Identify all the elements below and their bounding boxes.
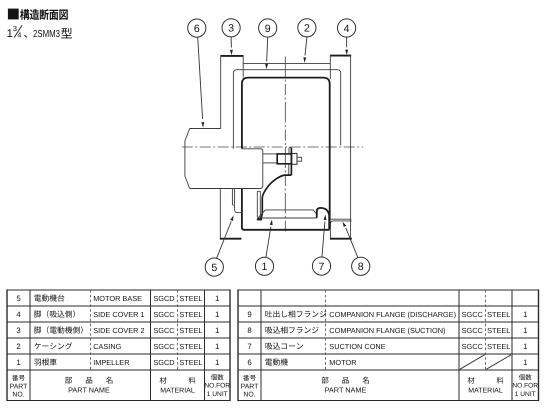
- svg-text:PART NAME: PART NAME: [68, 386, 110, 395]
- callout 3 leg: [222, 19, 240, 37]
- shaft: [263, 153, 277, 155]
- svg-text:4: 4: [344, 23, 350, 35]
- svg-text:2SMM3: 2SMM3: [33, 29, 60, 40]
- svg-text:STEEL: STEEL: [487, 310, 510, 319]
- svg-text:SIDE COVER 1: SIDE COVER 1: [93, 310, 144, 319]
- svg-text:COMPANION FLANGE (SUCTION): COMPANION FLANGE (SUCTION): [329, 326, 445, 335]
- svg-text:1 UNIT: 1 UNIT: [515, 391, 536, 398]
- svg-text:PART NAME: PART NAME: [325, 386, 367, 395]
- material n/a diagonals: [460, 355, 485, 369]
- svg-text:NO.FOR: NO.FOR: [512, 383, 538, 390]
- svg-text:IMPELLER: IMPELLER: [93, 358, 129, 367]
- svg-text:1: 1: [215, 310, 219, 319]
- svg-text:STEEL: STEEL: [179, 326, 202, 335]
- casing (2): [243, 62, 330, 64]
- left table header: [12, 375, 18, 381]
- svg-text:3: 3: [228, 23, 234, 35]
- svg-text:2: 2: [304, 23, 310, 35]
- svg-text:1: 1: [523, 342, 527, 351]
- svg-text:STEEL: STEEL: [179, 310, 202, 319]
- svg-text:STEEL: STEEL: [487, 326, 510, 335]
- callout 7 cone: [312, 257, 330, 275]
- horizontal centerline: [182, 146, 364, 148]
- svg-text:7: 7: [319, 261, 325, 273]
- leg left / side cover 2 (3): [221, 55, 244, 57]
- leg right / side cover 1 (4): [330, 55, 351, 57]
- svg-text:7: 7: [247, 342, 251, 351]
- suction cone (7): [317, 208, 329, 229]
- svg-text:SGCC: SGCC: [153, 310, 175, 319]
- svg-text:MATERIAL: MATERIAL: [160, 388, 195, 395]
- svg-text:PART: PART: [10, 384, 29, 391]
- svg-text:3: 3: [16, 326, 20, 335]
- svg-text:MATERIAL: MATERIAL: [468, 388, 503, 395]
- right table header: [243, 375, 249, 381]
- svg-text:8: 8: [358, 261, 364, 273]
- svg-text:NO.: NO.: [243, 392, 255, 399]
- svg-text:1: 1: [523, 326, 527, 335]
- svg-text:2: 2: [16, 342, 20, 351]
- svg-text:SGCC: SGCC: [153, 342, 175, 351]
- svg-text:SGCC: SGCC: [462, 326, 484, 335]
- nut and washer: [291, 154, 297, 165]
- vertical centerline: [284, 57, 286, 235]
- svg-text:STEEL: STEEL: [487, 342, 510, 351]
- svg-text:4: 4: [16, 310, 21, 319]
- svg-text:NO.: NO.: [12, 392, 24, 399]
- svg-text:1 UNIT: 1 UNIT: [207, 391, 228, 398]
- svg-text:1: 1: [215, 342, 219, 351]
- svg-text:SIDE COVER 2: SIDE COVER 2: [93, 326, 144, 335]
- svg-text:4: 4: [17, 31, 21, 40]
- svg-text:STEEL: STEEL: [179, 342, 202, 351]
- svg-text:SGCC: SGCC: [462, 342, 484, 351]
- impeller (1): [290, 148, 292, 175]
- left parts table grid: [7, 289, 230, 291]
- svg-text:1: 1: [523, 310, 527, 319]
- svg-text:6: 6: [194, 23, 200, 35]
- callout 8 flange: [352, 257, 370, 275]
- svg-text:PART: PART: [241, 384, 260, 391]
- svg-text:1: 1: [523, 358, 527, 367]
- callout 9 flange: [259, 19, 277, 37]
- svg-text:9: 9: [265, 23, 271, 35]
- svg-text:SUCTION CONE: SUCTION CONE: [329, 342, 385, 351]
- svg-text:1: 1: [215, 294, 219, 303]
- svg-text:1: 1: [7, 28, 13, 40]
- svg-text:STEEL: STEEL: [179, 294, 202, 303]
- svg-text:COMPANION FLANGE (DISCHARGE): COMPANION FLANGE (DISCHARGE): [329, 310, 456, 319]
- svg-text:MOTOR BASE: MOTOR BASE: [93, 294, 142, 303]
- svg-text:1: 1: [16, 358, 20, 367]
- callout 1 impeller: [255, 257, 273, 275]
- callout 6 motor: [188, 19, 206, 37]
- svg-text:1: 1: [215, 358, 219, 367]
- callout 4 leg: [338, 19, 356, 37]
- svg-text:9: 9: [247, 310, 251, 319]
- callout 5 base: [205, 258, 223, 276]
- svg-text:CASING: CASING: [93, 342, 121, 351]
- svg-text:STEEL: STEEL: [179, 358, 202, 367]
- svg-text:SGCD: SGCD: [153, 358, 174, 367]
- motor (6): [185, 129, 221, 189]
- svg-text:1: 1: [215, 326, 219, 335]
- title text 構造断面図: [20, 9, 29, 20]
- right parts table grid: [238, 289, 539, 291]
- title block mark: [8, 9, 19, 20]
- svg-text:SGCC: SGCC: [153, 326, 175, 335]
- companion flange suction (8): [330, 218, 352, 220]
- svg-text:6: 6: [247, 358, 251, 367]
- svg-text:NO.FOR: NO.FOR: [204, 383, 230, 390]
- svg-text:8: 8: [247, 326, 251, 335]
- svg-text:SGCC: SGCC: [462, 310, 484, 319]
- svg-text:5: 5: [16, 294, 21, 303]
- motor base (5): [232, 189, 233, 206]
- svg-text:SGCD: SGCD: [153, 294, 174, 303]
- hub block: [277, 154, 291, 164]
- svg-text:1: 1: [262, 261, 268, 273]
- svg-text:MOTOR: MOTOR: [329, 358, 356, 367]
- svg-text:5: 5: [211, 262, 217, 274]
- callout 2 casing: [298, 19, 316, 37]
